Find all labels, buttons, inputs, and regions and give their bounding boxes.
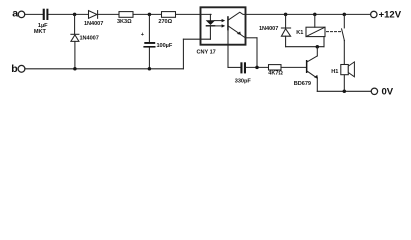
opto LED [206,14,216,39]
diode D2 1N4007 vertical antiparallel [71,14,99,68]
top rail opto collector to +12V [246,13,371,15]
opto light arrow 1 [214,19,225,22]
dashed actuator link [327,31,341,33]
svg-text:K1: K1 [296,30,303,36]
svg-text:3K3Ω: 3K3Ω [117,19,132,25]
junction node10 100uF-b [148,67,152,71]
capacitor 330pF [228,62,269,84]
junction node1 [73,13,77,17]
svg-text:0V: 0V [382,87,394,98]
wire C1 to node1 to D1 [48,13,88,15]
svg-text:MKT: MKT [34,29,47,35]
resistor R2 270 [158,12,175,26]
op-to-coupler U1 CNY17 box [197,7,246,55]
buzzer H1 [331,62,354,77]
svg-text:1N4007: 1N4007 [259,26,278,32]
wire flyback to relay bottom [286,46,324,48]
svg-text:1N4007: 1N4007 [84,21,103,27]
capacitor 100uF electrolytic [141,14,173,68]
svg-text:1N4007: 1N4007 [80,35,99,41]
opto phototransistor [227,12,245,67]
0V rail [317,90,371,92]
diode D1 1N4007 horizontal [84,11,103,28]
node a terminal circle [18,11,25,18]
relay K1 coil [296,14,325,46]
b rail wire [25,68,184,70]
svg-text:330pF: 330pF [235,78,252,84]
+12V terminal [371,10,402,21]
wire LED cathode out to b rail [183,39,210,69]
junction node8 buzzer-0V [343,90,347,94]
svg-text:BD679: BD679 [294,81,311,87]
junction node4 relay top [313,13,317,17]
svg-text:CNY 17: CNY 17 [197,49,216,55]
node b terminal circle [18,65,25,72]
resistor R3 4K7 [268,65,283,77]
wire D1 to R1 [98,13,119,15]
wire opto emitter out [246,38,258,68]
svg-text:+12V: +12V [379,10,402,21]
wire R2 to optocoupler [176,13,212,15]
junction node5 switch top [343,13,347,17]
junction node3 [284,13,288,17]
svg-text:270Ω: 270Ω [158,19,172,25]
junction node7 emitter-cap-res [255,66,259,70]
0V terminal [371,87,394,98]
svg-text:b: b [11,63,17,75]
opto light arrow 2 [214,24,225,27]
diode D3 1N4007 flyback [259,14,291,46]
svg-text:a: a [12,8,18,20]
svg-text:100µF: 100µF [157,43,173,49]
junction node6 collector [316,45,320,49]
transistor Q1 BD679 [294,47,318,92]
wire R1 to R2 [133,13,162,15]
svg-text:4K7Ω: 4K7Ω [268,71,283,77]
wire buzzer to 0V [343,75,345,91]
resistor R1 3K3 [117,12,133,26]
wire a to C1 [25,13,43,15]
capacitor 1uF MKT [34,9,49,35]
junction node2 [148,13,152,17]
junction node9 D2-b [73,67,77,71]
svg-text:H1: H1 [331,69,338,75]
wire R3 to Q1 base [281,66,306,68]
relay contact K1 switch [342,14,345,64]
